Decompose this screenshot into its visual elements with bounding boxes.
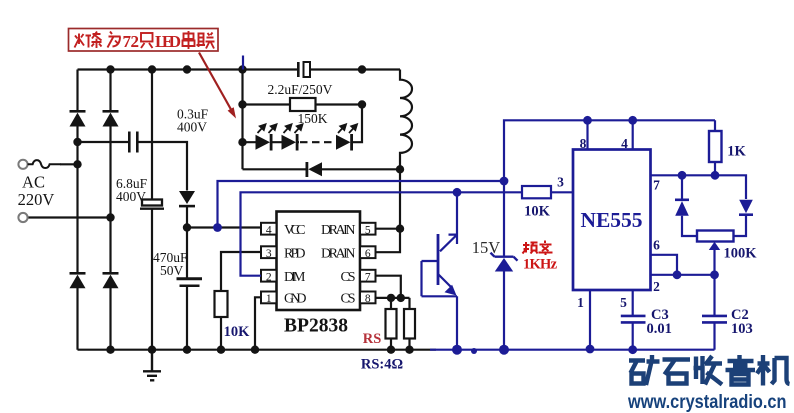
wire GND pin to rail [255,297,261,349]
annotation arrow [199,53,236,119]
wire VCC to NE555 supply column [218,181,505,228]
zener ZD1 15V [491,253,518,272]
wire pin8 stub [586,120,588,149]
wire pin1 stub [589,290,591,350]
svg-text:RS: RS [363,331,382,347]
svg-text:NE555: NE555 [580,208,642,232]
label pinlv 1KHz red [523,241,553,256]
svg-text:RS:4Ω: RS:4Ω [361,357,403,373]
wire LED box bottom row [243,168,401,170]
pin 6 box [360,246,376,258]
capacitor C3 plates [621,316,646,323]
diode D3 bridge bottom-left [70,272,86,288]
svg-text:5: 5 [620,295,627,310]
wire pin6 branch [651,255,678,275]
diode D4 bridge bottom-right [103,272,119,288]
LED emission arrows [258,124,358,133]
capacitor 470uF electrolytic [177,279,203,286]
wire AC neutral to bridge [28,216,111,218]
svg-text:400V: 400V [177,120,207,135]
wire inductor to DRAIN node [399,169,401,228]
svg-text:3: 3 [557,175,564,190]
pin 7 box [360,270,376,282]
potentiometer wiper arrow [709,242,720,250]
diode D6 freewheel pointing left [306,162,323,177]
resistor 10K body (BP2838) [215,291,228,317]
annotation text CJK strokes (deng tiao wei ... chuan lian) [75,31,215,49]
pin 2 box [261,270,277,282]
pin 4 box [261,223,277,235]
resistor 150K body [290,98,316,111]
wire 470uF column [186,228,188,350]
pin 5 box [360,223,376,235]
svg-text:DIM: DIM [284,270,306,285]
svg-text:DRAIN: DRAIN [321,223,356,238]
wire 150K row [243,103,363,105]
pin 8 box [360,292,376,304]
wire 6.8uF column [151,70,153,350]
AC fuse squiggle [28,160,61,168]
diode D1 bridge top-left [70,110,86,127]
annotation box [69,29,219,52]
svg-text:1: 1 [577,295,584,310]
svg-text:1K: 1K [727,144,746,160]
wire AC live to bridge [60,163,78,165]
AC terminal bottom [18,213,27,222]
wire C2 bottom to rail [713,323,715,350]
wire 1K branch [714,120,716,175]
wire DRAIN pin6 [376,229,401,253]
wire NE555 supply top rail [504,120,715,256]
diode D7 steering up [675,199,689,216]
pin 1 box [261,292,277,304]
wire CS pin7 [376,276,401,298]
svg-text:LED: LED [155,32,181,51]
svg-text:72: 72 [123,32,140,51]
wire pin2 row [651,274,715,276]
wire left steering diode branch [682,175,697,236]
capacitor 0.3uF plates [129,132,137,153]
IC U2 NE555 body [573,150,651,291]
LED1 [256,134,273,151]
wire pot wiper column [713,250,715,315]
svg-text:VCC: VCC [284,223,306,238]
pin 3 box [261,246,277,258]
wire bottom ground rail [78,349,437,351]
wire CS pin8 [376,297,410,299]
svg-text:15V: 15V [472,238,501,257]
svg-text:3: 3 [266,248,272,260]
svg-text:GND: GND [284,292,307,307]
svg-text:RPD: RPD [284,246,306,261]
svg-text:7: 7 [365,271,371,283]
svg-text:1KHz: 1KHz [523,257,558,273]
svg-text:10K: 10K [524,204,551,220]
wire RPD 10K branch [221,252,261,350]
svg-text:6: 6 [365,248,371,260]
junction dots blue [213,116,719,355]
transistor Q1 compound [422,192,458,349]
svg-text:AC: AC [22,173,45,192]
resistor RS-a body [386,309,397,339]
BLACK-SECTION [28,70,436,350]
wire blue stub above LED node [242,56,244,70]
svg-text:DRAIN: DRAIN [321,246,356,261]
svg-text:1: 1 [266,293,272,305]
IC U1 BP2838 body [277,212,361,311]
svg-text:8: 8 [580,136,587,151]
resistor 10K body (pin3) [522,186,551,198]
wire blue ground rail [430,349,715,351]
diode D8 steering down [739,200,753,216]
wire right steering diode branch [734,216,747,237]
svg-text:103: 103 [731,321,753,337]
wire DRAIN pin5 [376,228,401,230]
capacitor 6.8uF electrolytic [140,200,164,209]
AC terminal top [18,160,27,169]
wire diode D5 to VCC node [186,207,188,228]
svg-text:2: 2 [266,271,272,283]
svg-text:100K: 100K [723,246,757,262]
svg-text:4: 4 [266,224,272,236]
LED3 [336,134,353,151]
wire bridge left column [76,70,78,350]
wire LED string row [243,105,363,143]
svg-text:www.crystalradio.cn: www.crystalradio.cn [627,391,786,413]
ground symbol [143,350,161,381]
capacitor 2.2uF plates [298,62,310,77]
svg-text:2: 2 [653,279,660,294]
svg-text:400V: 400V [116,189,146,204]
wire 0.3uF row [78,142,188,191]
resistor 1K body [709,131,722,162]
wire top rail [78,68,401,70]
watermark CJK kuang shi shou yin ji [629,355,790,386]
wire LED dashed segment [300,141,336,143]
svg-text:2.2uF/250V: 2.2uF/250V [268,82,333,97]
wire pin5 to C3 [632,290,634,350]
svg-text:CS: CS [341,270,356,285]
svg-text:7: 7 [653,178,660,193]
wire LED box left column [241,70,243,170]
svg-text:10K: 10K [224,324,251,340]
svg-text:50V: 50V [160,263,184,278]
svg-text:CS: CS [341,292,356,307]
junction dots black [73,65,413,354]
wire pin4 stub [632,120,634,149]
svg-text:5: 5 [365,224,371,236]
diode D5 vertical [179,191,195,207]
wire bridge right column [109,70,111,350]
wire pin7 row [651,175,747,199]
transistor Q1 emitter arrowhead [445,285,457,296]
svg-text:BP2838: BP2838 [284,316,348,337]
wire RS resistor stubs [391,298,410,350]
wire 10K to NE555 pin3 [551,191,573,193]
LED2 [282,134,299,151]
wire VCC node to pin4 [187,226,261,228]
svg-text:4: 4 [621,136,628,151]
potentiometer 100K body [697,231,734,242]
svg-text:8: 8 [365,293,371,305]
capacitor C2 plates [702,316,727,323]
diode D2 bridge top-right [103,110,119,127]
svg-text:0.01: 0.01 [647,321,672,337]
BLUE-SECTION [218,56,747,350]
wire zener to rail [503,272,505,350]
resistor RS-b body [404,309,415,339]
svg-text:220V: 220V [18,190,55,209]
svg-text:6: 6 [653,238,660,253]
inductor L1 [400,70,412,170]
wire DIM net to pin3 row [241,192,523,275]
